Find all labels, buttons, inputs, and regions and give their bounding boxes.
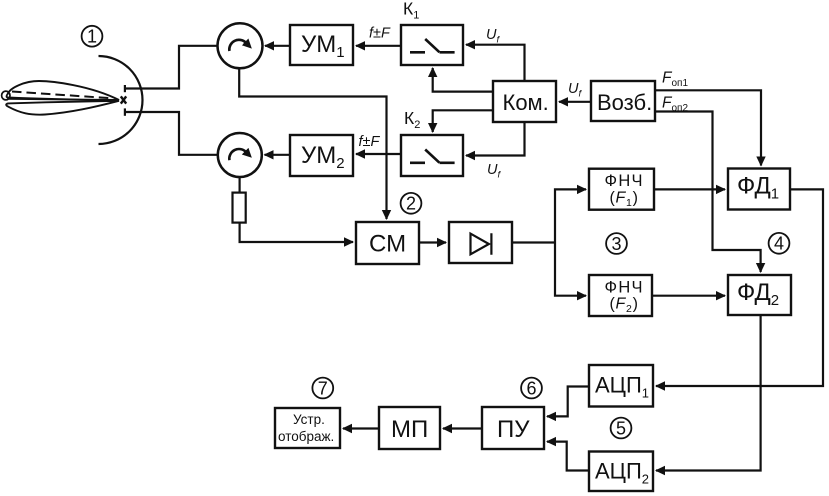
- svg-text:АЦП1: АЦП1: [595, 373, 649, 401]
- wire: ФД1 to АЦП1: [656, 189, 823, 386]
- box К2: [401, 135, 463, 176]
- box ФНЧ1: [589, 169, 654, 210]
- antenna reflector arc: [99, 56, 143, 144]
- diode symbol: [471, 233, 492, 255]
- wire: Возб Fоп1 to ФД1: [655, 90, 761, 165]
- wire: УМ1 to circulator1: [265, 45, 290, 47]
- wire: feed top to circulator1: [126, 46, 217, 89]
- switch symbol К2: [410, 150, 455, 163]
- wire: circulator1 down to mixer СМ: [239, 69, 386, 219]
- svg-text:Ком.: Ком.: [503, 90, 549, 115]
- box АЦП2: [589, 452, 653, 492]
- feed cross mark: [121, 96, 126, 103]
- svg-text:СМ: СМ: [369, 231, 406, 258]
- svg-text:3: 3: [611, 234, 621, 254]
- antenna lower lobe: [6, 101, 119, 115]
- circulator Ц2 arrow: [229, 149, 246, 160]
- svg-text:Возб.: Возб.: [597, 90, 652, 115]
- box ФНЧ2: [589, 275, 652, 316]
- numbered circle 3: [606, 233, 627, 254]
- wire: Ком to К2 top: [433, 110, 493, 132]
- wire: МП to Устр: [343, 427, 379, 429]
- box Устр отображ: [275, 408, 340, 448]
- numbered circle 4: [769, 233, 790, 254]
- box detector: [449, 222, 512, 263]
- svg-text:7: 7: [318, 378, 328, 398]
- svg-text:ФНЧ: ФНЧ: [605, 278, 644, 296]
- numbered circle 2: [401, 193, 422, 214]
- numbered circle 7: [312, 378, 333, 399]
- wire: Возб Fоп2 to ФД2: [655, 112, 761, 273]
- wire: split up to ФНЧ1: [555, 189, 586, 242]
- wire: split down to ФНЧ2: [555, 243, 586, 296]
- wire: Ком to К1 bottom: [433, 68, 493, 92]
- box ФД1: [728, 169, 790, 210]
- svg-text:2: 2: [406, 194, 416, 214]
- box ФД2: [728, 275, 791, 315]
- svg-text:f±F: f±F: [359, 134, 381, 150]
- svg-text:Устр.: Устр.: [293, 412, 325, 427]
- box Возб: [591, 81, 655, 121]
- svg-text:(F2): (F2): [610, 296, 639, 316]
- svg-text:ФНЧ: ФНЧ: [605, 172, 644, 190]
- box К1: [401, 25, 463, 65]
- wire: Ком to К1 right side Uf: [466, 45, 525, 81]
- box Ком: [493, 81, 556, 122]
- numbered circle 6: [521, 378, 542, 399]
- svg-text:МП: МП: [391, 416, 428, 443]
- numbered circle 1: [82, 26, 103, 47]
- wire: Ком to К2 right side Uf: [466, 122, 525, 156]
- svg-text:АЦП2: АЦП2: [595, 459, 649, 487]
- svg-text:ПУ: ПУ: [497, 416, 530, 443]
- box ПУ: [482, 407, 544, 449]
- svg-text:1: 1: [87, 27, 97, 47]
- box АЦП1: [589, 365, 653, 407]
- wire: detector to split node: [512, 241, 555, 243]
- wire: Возб to Ком Uf: [559, 101, 591, 103]
- wire: АЦП2 to ПУ: [547, 442, 589, 471]
- wire: ФНЧ1 to ФД1: [654, 188, 725, 190]
- box УМ1: [290, 25, 353, 65]
- svg-text:(F1): (F1): [610, 189, 639, 209]
- svg-text:f±F: f±F: [369, 26, 391, 42]
- wire: load to mixer СМ: [240, 223, 353, 242]
- wire: СМ to detector: [419, 241, 446, 243]
- box СМ: [356, 222, 419, 264]
- wire: ФД2 to АЦП2: [656, 315, 761, 471]
- wire: УМ2 to circulator2: [265, 154, 291, 156]
- wire: ФНЧ2 to ФД2: [652, 295, 725, 297]
- numbered circle 5: [611, 418, 632, 439]
- box УМ2: [290, 135, 353, 176]
- svg-text:отображ.: отображ.: [278, 429, 334, 444]
- feed tick upper: [124, 85, 126, 92]
- wire: circulator2 down to load: [239, 177, 241, 193]
- wire: feed bottom to circulator2: [126, 112, 218, 155]
- wire: ПУ to МП: [443, 427, 482, 429]
- circulator Ц2: [218, 133, 262, 177]
- wire: К2 to УМ2 f±F: [356, 153, 401, 155]
- load resistor: [233, 193, 246, 223]
- antenna axis dashed line: [12, 92, 112, 99]
- wire: К1 to УМ1 f±F: [356, 45, 401, 47]
- circulator Ц1 arrow: [229, 40, 246, 51]
- antenna center line: [7, 99, 119, 100]
- box МП: [379, 407, 440, 449]
- svg-text:5: 5: [616, 418, 626, 438]
- feed tick lower: [124, 108, 126, 115]
- wire: АЦП1 to ПУ: [547, 387, 589, 417]
- svg-text:6: 6: [526, 378, 536, 398]
- antenna upper lobe: [7, 81, 119, 100]
- antenna back lobe loop: [2, 91, 10, 100]
- circulator Ц1: [218, 23, 263, 68]
- switch symbol К1: [410, 39, 455, 52]
- svg-text:4: 4: [774, 234, 784, 254]
